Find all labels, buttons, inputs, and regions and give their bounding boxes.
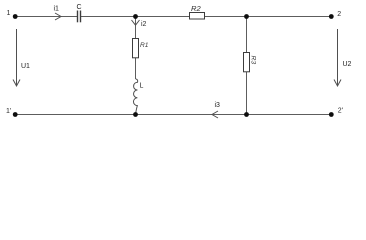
resistor R2 (190, 4, 205, 19)
capacitor C (77, 4, 82, 22)
wire middle branch between R1 and L (135, 58, 137, 79)
junction node at top of right branch (244, 14, 249, 19)
junction node at top of middle branch (133, 14, 138, 19)
current arrow i2 (132, 20, 147, 28)
svg-text:L: L (140, 83, 144, 90)
inductor L (133, 79, 143, 114)
svg-text:1': 1' (6, 108, 11, 115)
voltage arrow U1 (13, 29, 30, 86)
wire top: R2 right to node 2 (205, 16, 331, 18)
svg-text:R3: R3 (250, 56, 257, 65)
node 1' (6, 108, 18, 117)
wire top: node 1 to capacitor left plate (15, 16, 77, 18)
svg-text:R1: R1 (140, 42, 149, 49)
wire right branch lower (R3 to bottom wire) (246, 72, 248, 115)
node 1 (7, 10, 18, 19)
current arrow i1 (54, 6, 62, 21)
node 2' (329, 108, 343, 117)
voltage arrow U2 (334, 29, 352, 86)
current arrow i3 (212, 102, 220, 118)
wire bottom: node 1' to node 2' (15, 114, 331, 116)
resistor R3 (244, 53, 257, 72)
svg-text:i3: i3 (215, 102, 221, 109)
wire middle branch upper (junction to R1) (135, 17, 137, 39)
wire top: capacitor right plate to R2 left (81, 16, 189, 18)
resistor R1 (133, 39, 149, 58)
svg-text:1: 1 (7, 10, 11, 17)
svg-text:i1: i1 (54, 6, 60, 13)
junction node at bottom of middle branch (133, 112, 138, 117)
svg-text:U1: U1 (21, 63, 30, 70)
svg-text:U2: U2 (343, 61, 352, 68)
wire right branch upper (junction to R3) (246, 17, 248, 53)
junction node at bottom of right branch (244, 112, 249, 117)
node 2 (329, 11, 341, 19)
svg-text:2: 2 (337, 11, 341, 18)
svg-text:i2: i2 (141, 21, 147, 28)
svg-text:2': 2' (338, 108, 343, 115)
svg-text:C: C (77, 4, 82, 11)
svg-text:R2: R2 (191, 4, 201, 13)
